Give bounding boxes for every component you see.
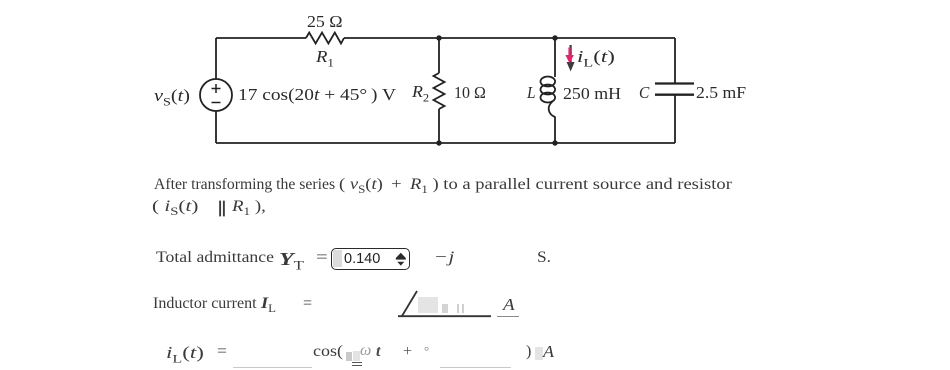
- wire bottom: [216, 142, 675, 144]
- question line 4: inductor current: [153, 295, 257, 313]
- resistor R2 top lead: [438, 38, 440, 73]
- inductor L coil loop 3: [541, 93, 556, 103]
- node bottom-R2: [436, 140, 441, 145]
- inductor L coil exit curl: [549, 102, 555, 118]
- label R1: [316, 47, 334, 70]
- question line 3: total admittance: [156, 249, 274, 267]
- label iL(t): [577, 47, 615, 70]
- capacitor C top lead: [674, 38, 676, 83]
- answer box (frequency): [346, 352, 353, 362]
- current arrow iL(t) red overlay: [565, 48, 573, 64]
- label source value 17cos(20t+45) V: [238, 85, 396, 105]
- question text line 1: [154, 176, 335, 194]
- label 10 ohm: [454, 83, 486, 103]
- wire top-middle segment: [344, 37, 675, 39]
- label L: [527, 83, 536, 103]
- capacitor C plates: [655, 84, 694, 95]
- inductor L bottom lead: [554, 117, 556, 144]
- resistor R1: [306, 33, 344, 44]
- label vs(t): [154, 86, 190, 109]
- current arrow iL(t) black underlay: [567, 45, 575, 72]
- resistor R2 bottom lead: [438, 109, 440, 143]
- inductor L top lead: [554, 38, 556, 77]
- label 250 mH: [563, 84, 621, 104]
- answer blank (amplitude): [233, 366, 312, 368]
- answer box (angle): [418, 297, 438, 313]
- select box: [331, 248, 410, 270]
- inductor L coil loop 1: [541, 77, 556, 87]
- node bottom-L: [552, 140, 557, 145]
- voltage source polarity marks: [212, 84, 221, 103]
- node top-R2: [436, 35, 441, 40]
- phasor angle symbol: [390, 287, 510, 319]
- wire source bottom lead: [215, 111, 217, 143]
- capacitor C bottom lead: [674, 95, 676, 143]
- inductor L coil loop 2: [541, 85, 556, 95]
- question text line 2: [152, 198, 198, 218]
- wire left vertical (source top lead): [215, 38, 217, 79]
- voltage source VS circle: [200, 79, 232, 111]
- question line 5: iL(t) equation: [166, 343, 204, 366]
- circuit schematic: [0, 0, 950, 180]
- wire top-left segment: [216, 37, 306, 39]
- answer blank (phase): [440, 366, 511, 368]
- resistor R2: [434, 73, 445, 109]
- label C: [639, 83, 649, 103]
- node top-L: [552, 35, 557, 40]
- label R2: [412, 82, 429, 105]
- label 2.5 mF: [696, 83, 746, 103]
- label 25 ohm: [307, 12, 343, 32]
